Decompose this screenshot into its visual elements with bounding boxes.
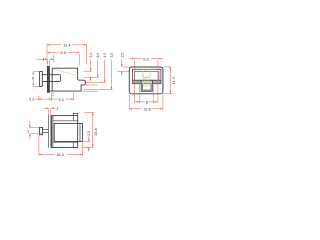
inner top line <box>53 120 78 122</box>
leaders <box>83 67 130 91</box>
svg-text:1.2: 1.2 <box>51 92 55 97</box>
stem <box>43 130 49 133</box>
key tab on top <box>73 114 77 116</box>
center tab <box>141 80 152 91</box>
bottom chain dims <box>39 92 74 101</box>
svg-text:1: 1 <box>56 107 58 111</box>
body outline <box>49 68 85 91</box>
dim 16.2 (bottom) <box>39 136 83 156</box>
svg-text:6: 6 <box>32 76 34 80</box>
right small dim 2.5 <box>121 59 123 75</box>
svg-text:16.2: 16.2 <box>56 152 65 157</box>
svg-text:8: 8 <box>146 100 148 104</box>
middle wide rect <box>54 123 82 141</box>
flange <box>47 66 49 92</box>
short up-arrow tail <box>90 77 92 81</box>
svg-text:2.5: 2.5 <box>120 53 124 58</box>
svg-text:9.9: 9.9 <box>60 50 66 55</box>
corner box verticals <box>72 116 74 148</box>
right band block <box>152 80 161 83</box>
inner bottom line <box>53 141 78 143</box>
svg-text:6.4: 6.4 <box>89 53 93 58</box>
outer rounded box <box>129 67 163 94</box>
svg-text:4.5: 4.5 <box>103 53 107 58</box>
left band block <box>133 80 142 83</box>
body outline <box>52 116 78 148</box>
dim 11.2 (right) <box>164 67 172 94</box>
svg-text:6.4: 6.4 <box>96 53 100 58</box>
svg-text:5.3: 5.3 <box>30 98 35 102</box>
dim 13.8 <box>129 95 163 110</box>
dim 1 (flange thickness) <box>48 60 50 64</box>
dim 1 (top) <box>49 110 51 114</box>
inner rect B <box>135 72 159 81</box>
latch diagonal (hidden, green dashed) <box>54 69 79 75</box>
svg-text:11.4: 11.4 <box>63 42 71 47</box>
dim 9.9 <box>78 54 80 66</box>
knob <box>40 127 43 134</box>
dim 9.3 <box>135 60 158 103</box>
knob (boot end cap) <box>40 72 43 87</box>
inner rect A <box>133 69 161 80</box>
svg-text:15.8: 15.8 <box>93 128 98 136</box>
dim 15.8 (right) <box>84 113 94 148</box>
svg-text:6.3: 6.3 <box>59 98 64 102</box>
svg-text:9.3: 9.3 <box>143 56 149 61</box>
left dim (knob) <box>29 121 31 140</box>
green hidden slot (upper) <box>143 69 151 77</box>
flange lines <box>48 114 51 148</box>
svg-text:2.5: 2.5 <box>87 131 91 136</box>
dim 11.4 <box>47 44 86 64</box>
stem + bore lines <box>42 75 60 82</box>
inner left vertical <box>52 116 54 148</box>
green hidden slot (lower) <box>144 78 150 87</box>
svg-text:11.2: 11.2 <box>171 76 176 84</box>
svg-text:1: 1 <box>43 58 45 62</box>
inner double line right <box>79 123 81 141</box>
svg-text:13.8: 13.8 <box>143 108 150 112</box>
right small dim 2.5 <box>82 142 91 148</box>
dim 8 <box>139 85 153 104</box>
svg-text:3: 3 <box>27 130 29 134</box>
vertical dim lines <box>91 60 112 90</box>
svg-text:3.5: 3.5 <box>110 53 114 58</box>
dim 6 (left, knob dia) <box>32 72 34 87</box>
